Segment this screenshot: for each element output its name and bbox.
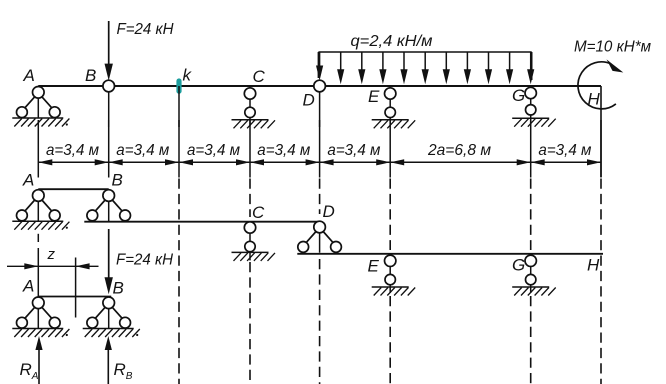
distributed load q: arrows: [319, 52, 321, 70]
support A (pinned, row4): rollers: [17, 317, 28, 328]
support E (roller, row3): upper roller: [385, 255, 396, 266]
support C (roller, row1): upper roller: [244, 88, 255, 99]
svg-text:a=3,4 м: a=3,4 м: [116, 142, 169, 159]
support D (on lower beam, row2): hinge circle: [314, 221, 326, 233]
support C (roller, row2): centre line: [249, 222, 251, 261]
support A (pinned, row1): rollers: [17, 107, 28, 118]
row2 suspended beam B..D: [84, 221, 319, 223]
hinge B circle: [103, 80, 115, 92]
support G (roller, row1): ground hatching: [512, 117, 549, 119]
support C (roller, row2): lower roller: [245, 241, 255, 251]
support E (roller, row1): upper roller: [385, 88, 396, 99]
svg-text:H: H: [587, 256, 600, 275]
svg-text:B: B: [113, 279, 124, 298]
support A (pinned, row2): hinge circle: [33, 190, 45, 202]
support B (pinned, row4): legs: [96, 307, 122, 318]
support B (pinned, row4): hinge circle: [103, 297, 115, 309]
support E (roller, row1): centre line: [389, 86, 391, 126]
svg-text:B: B: [85, 66, 96, 85]
row4 beam A-B: [38, 296, 111, 298]
support G (roller, row3): ground hatching: [512, 286, 549, 288]
support B (pinned, row4): rollers: [87, 317, 98, 328]
dashed vertical at G (upper): [530, 179, 532, 251]
support C (roller, row1): ground hatching: [232, 119, 269, 121]
k vertical line: [178, 86, 180, 127]
svg-text:z: z: [47, 246, 56, 263]
svg-text:q=2,4 кН/м: q=2,4 кН/м: [351, 33, 433, 50]
dimension boundary verticals: [37, 120, 39, 178]
support A (pinned, row2): centre line: [37, 189, 39, 221]
support D (on lower beam, row2): rollers: [298, 242, 309, 253]
support G (roller, row1): centre line: [530, 86, 532, 124]
section k teal marker: [176, 78, 181, 93]
support A (pinned, row1): hinge circle: [33, 87, 45, 99]
reaction R_A arrow: [38, 346, 40, 384]
support C (roller, row1): centre line: [249, 86, 251, 126]
svg-text:M=10 кН*м: M=10 кН*м: [574, 39, 651, 56]
dashed vertical at E (upper): [389, 179, 391, 251]
support A (pinned, row4): legs: [25, 307, 51, 318]
support B (on lower beam, row2): rollers: [87, 210, 98, 221]
dashed vertical at H: [600, 179, 602, 384]
support E (roller, row3): lower roller: [385, 274, 395, 284]
H end vertical: [600, 86, 602, 177]
dashed vertical at D (upper): [319, 179, 321, 215]
svg-text:a=3,4 м: a=3,4 м: [327, 142, 380, 159]
svg-text:F=24 кН: F=24 кН: [116, 252, 173, 269]
support A (pinned, row1): ground hatching: [12, 117, 63, 119]
row4 z dimension arrows (outside, pointing inward): [24, 263, 38, 269]
support E (roller, row3): centre line: [389, 254, 391, 293]
support D (on lower beam, row2): centre line: [319, 221, 321, 253]
support G (roller, row1): lower roller: [526, 105, 536, 115]
support B (on lower beam, row2): hinge circle: [103, 190, 115, 202]
support D (on lower beam, row2): legs: [306, 232, 332, 243]
support G (roller, row3): centre line: [530, 254, 532, 293]
support A (pinned, row1): centre line: [37, 86, 39, 118]
dashed vertical at E (lower): [389, 296, 391, 384]
support A (pinned, row2): rollers: [17, 210, 28, 221]
row4 z dimension line: [7, 265, 99, 267]
svg-text:G: G: [512, 86, 525, 105]
support B (on lower beam, row2): legs: [96, 200, 122, 211]
support A (pinned, row1): legs: [25, 97, 51, 108]
svg-text:C: C: [252, 203, 265, 222]
row2 beam A-B: [38, 188, 108, 190]
support B (pinned, row4): ground hatching: [83, 328, 134, 330]
row4 z boundary line: [75, 258, 77, 318]
svg-text:a=3,4 м: a=3,4 м: [46, 142, 99, 159]
svg-text:B: B: [112, 171, 123, 190]
main beam A-H: [38, 85, 601, 87]
svg-text:E: E: [368, 257, 380, 276]
dimension line segments with arrows: [38, 161, 108, 163]
dashed vertical at C (upper): [249, 179, 251, 218]
hinge D circle: [314, 80, 326, 92]
svg-text:a=3,4 м: a=3,4 м: [257, 142, 310, 159]
moment M arrowhead: [607, 59, 624, 72]
support E (roller, row1): lower roller: [385, 107, 395, 117]
svg-text:F=24 кН: F=24 кН: [117, 21, 174, 38]
support A (pinned, row2): legs: [25, 200, 51, 211]
svg-text:a=3,4 м: a=3,4 м: [538, 142, 591, 159]
support C (roller, row1): lower roller: [245, 107, 255, 117]
dashed vertical at k: [178, 179, 180, 384]
svg-text:D: D: [303, 91, 315, 110]
row3 beam D..H: [297, 253, 603, 255]
support E (roller, row1): ground hatching: [372, 119, 409, 121]
svg-text:E: E: [368, 87, 380, 106]
support B (pinned, row4): centre line: [108, 297, 110, 329]
svg-text:C: C: [253, 67, 266, 86]
row4 force F=24 kN at B: [108, 229, 110, 281]
svg-text:a=3,4 м: a=3,4 м: [187, 142, 240, 159]
reaction R_B arrow: [107, 346, 109, 384]
dashed vertical at C (lower): [249, 262, 251, 384]
svg-text:2a=6,8 м: 2a=6,8 м: [427, 142, 491, 159]
moment M arc at H: [578, 62, 616, 109]
support B (on lower beam, row2): centre line: [108, 189, 110, 221]
support E (roller, row3): ground hatching: [372, 286, 409, 288]
support C (roller, row2): upper roller: [244, 222, 255, 233]
support C (roller, row2): ground hatching: [232, 251, 269, 253]
dashed vertical at D (lower): [319, 259, 321, 384]
force F=24 kN at B: line and arrowhead: [108, 21, 110, 68]
support G (roller, row3): upper roller: [525, 255, 536, 266]
svg-text:D: D: [323, 202, 335, 221]
support G (roller, row3): lower roller: [526, 274, 536, 284]
svg-text:A: A: [23, 66, 35, 85]
svg-text:A: A: [22, 171, 34, 190]
svg-text:A: A: [22, 277, 34, 296]
support A (pinned, row2): ground hatching: [12, 220, 63, 222]
svg-text:G: G: [512, 256, 525, 275]
dashed vertical at G (lower): [530, 296, 532, 384]
distributed load q: top line: [318, 51, 531, 53]
support A (pinned, row4): hinge circle: [33, 297, 45, 309]
row4 A extension line: [37, 234, 39, 242]
support A (pinned, row4): centre line: [37, 297, 39, 329]
distributed load q: end verticals: [317, 52, 319, 78]
support A (pinned, row4): ground hatching: [12, 328, 63, 330]
support G (roller, row1): upper roller: [525, 87, 536, 98]
